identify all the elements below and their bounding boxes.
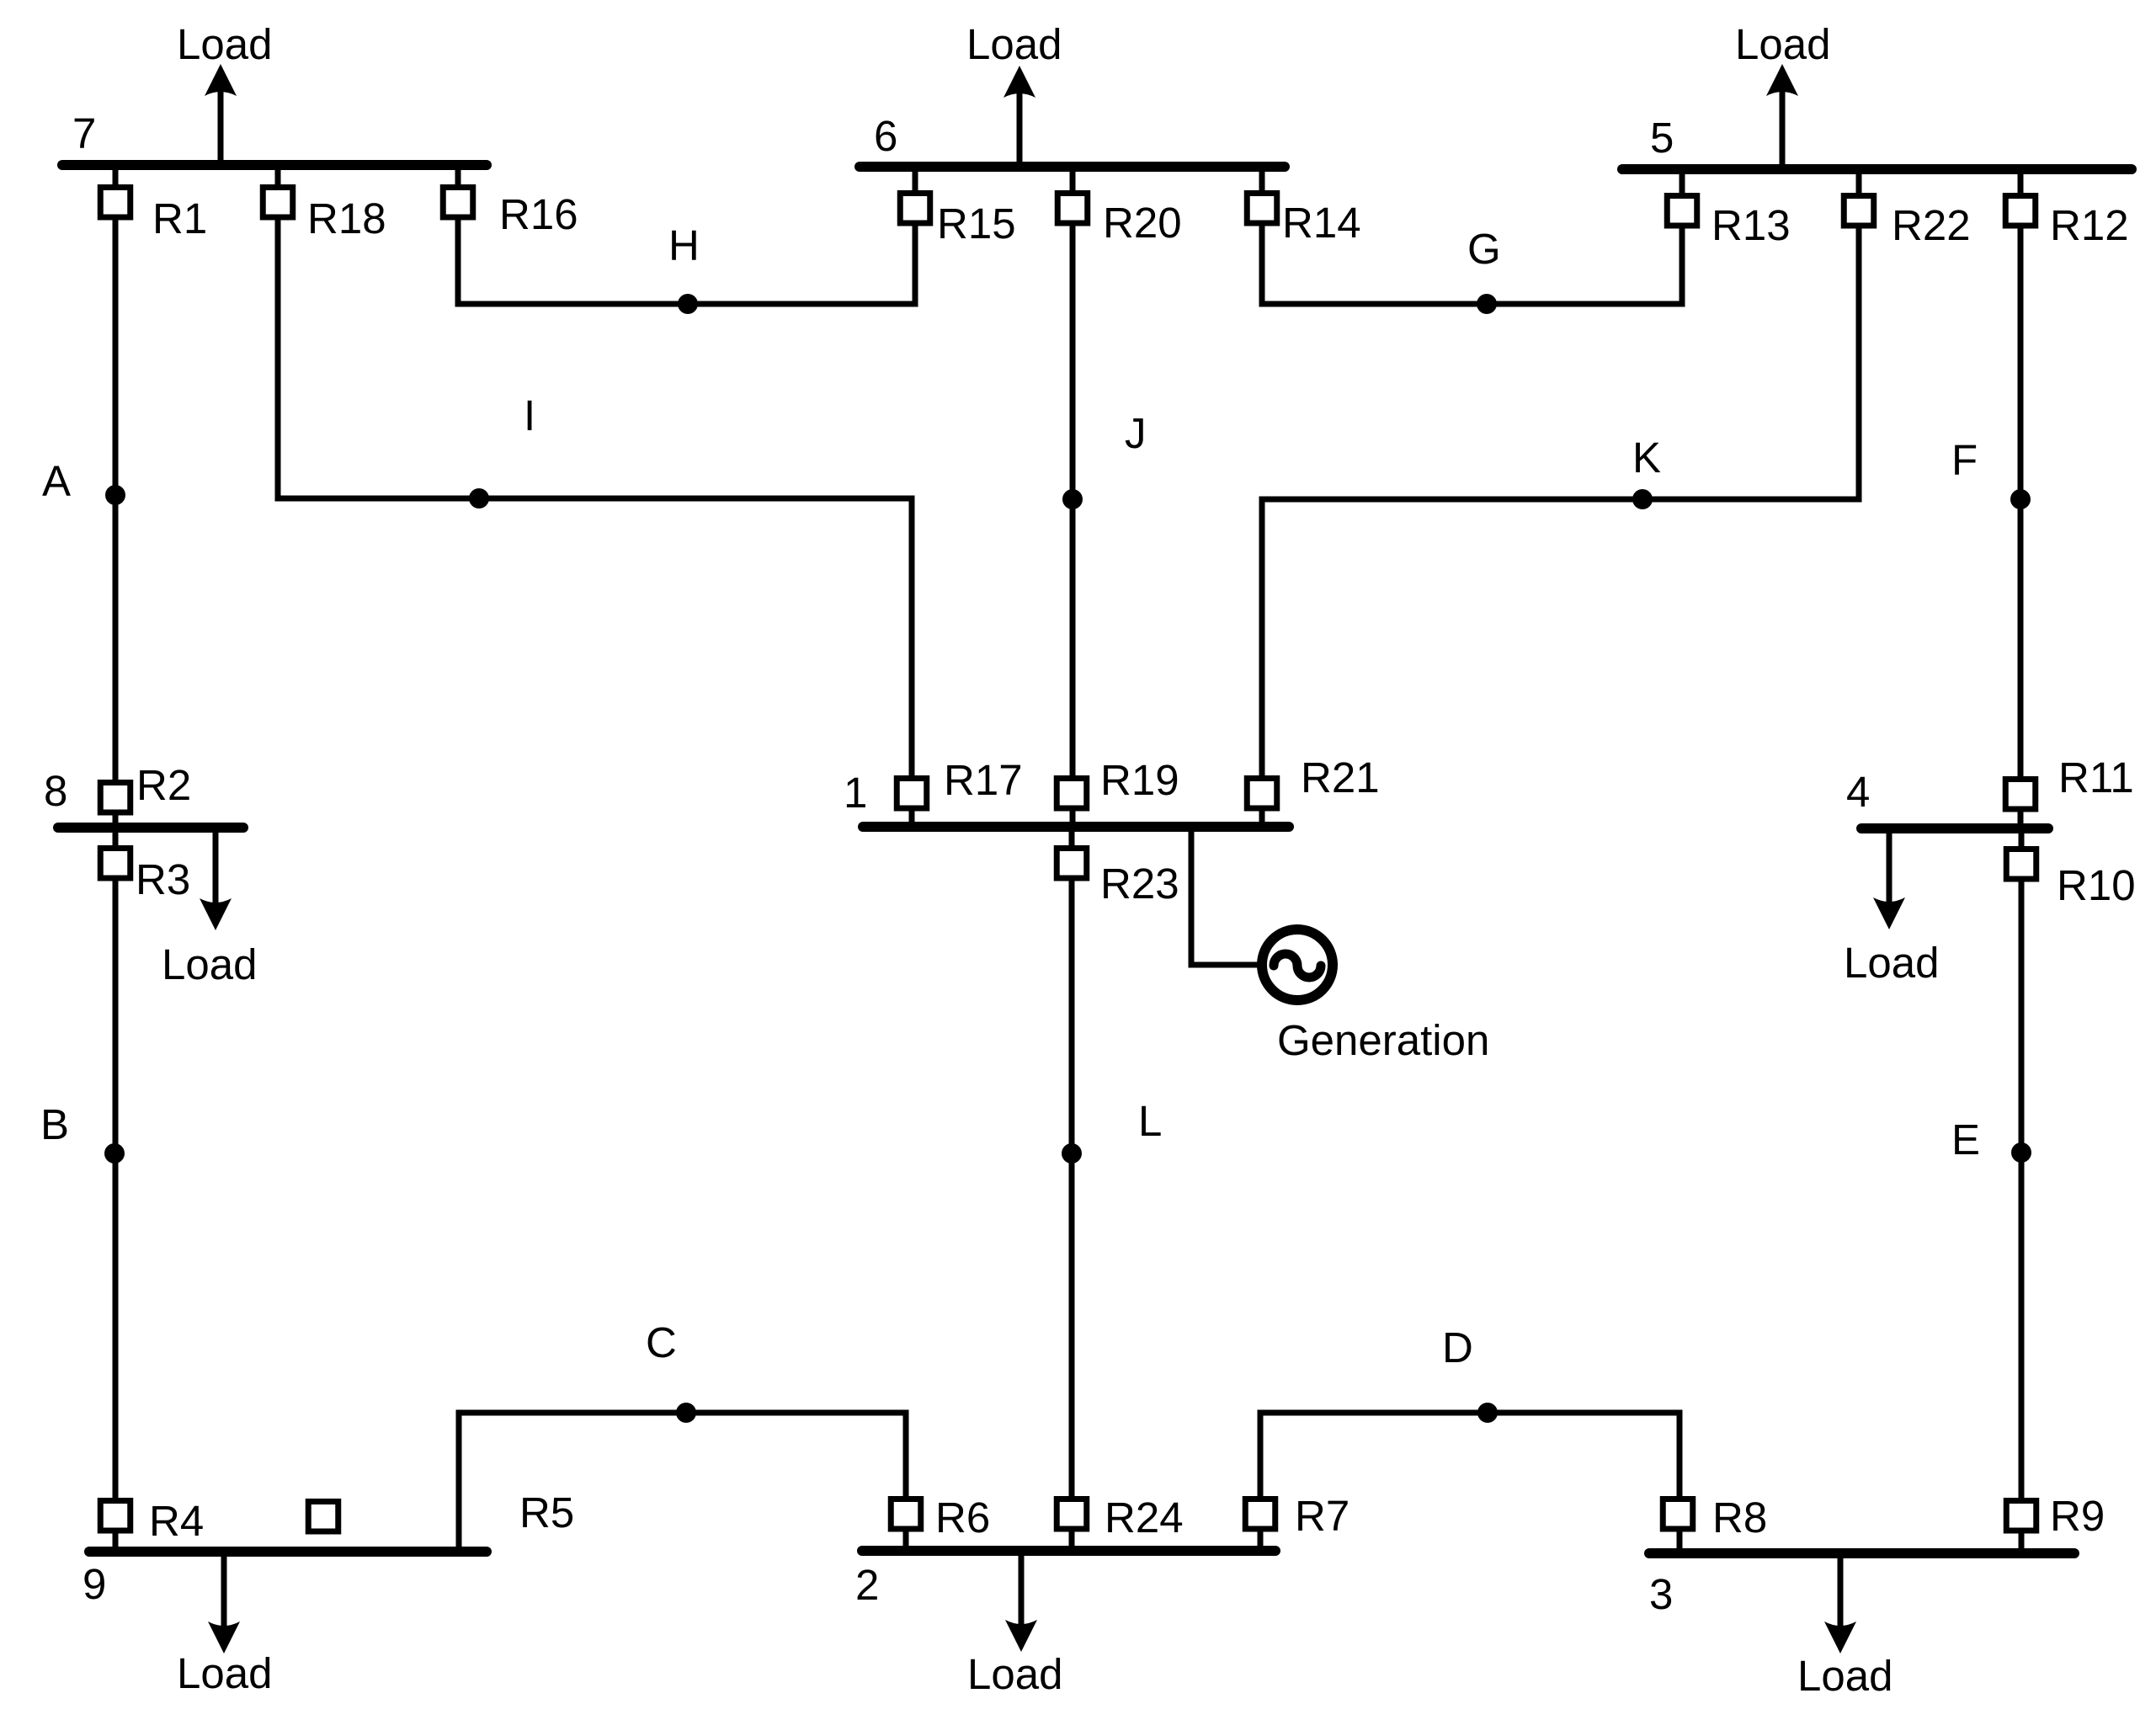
svg-text:6: 6	[874, 112, 897, 160]
svg-text:1: 1	[844, 769, 867, 817]
svg-text:5: 5	[1650, 114, 1674, 162]
svg-text:H: H	[668, 221, 700, 269]
relay R4	[100, 1501, 130, 1531]
bus 7	[62, 160, 487, 170]
relay R19	[1057, 779, 1087, 809]
svg-text:R6: R6	[935, 1494, 990, 1542]
svg-text:R23: R23	[1100, 860, 1179, 908]
svg-text:D: D	[1442, 1323, 1473, 1371]
load arrow bus 6	[1003, 66, 1035, 163]
svg-text:F: F	[1951, 436, 1978, 484]
svg-text:R10: R10	[2057, 861, 2136, 909]
wire line J (R20 to R19)	[1070, 166, 1076, 823]
relay R1	[100, 188, 130, 218]
load arrow bus 4	[1873, 832, 1905, 929]
node E	[2011, 1142, 2031, 1163]
generator G1	[1262, 929, 1333, 1000]
relay R3	[100, 849, 130, 879]
svg-text:4: 4	[1846, 768, 1870, 816]
bus 3	[1649, 1548, 2074, 1558]
node A	[105, 485, 125, 505]
svg-text:R8: R8	[1712, 1494, 1767, 1542]
svg-text:Load: Load	[966, 20, 1062, 68]
svg-text:I: I	[524, 391, 535, 439]
relay R20	[1057, 194, 1088, 224]
relay R2	[100, 783, 130, 813]
bus 4	[1861, 823, 2048, 833]
bus 9	[89, 1547, 487, 1557]
relay R13	[1667, 196, 1697, 226]
svg-text:R1: R1	[152, 194, 207, 242]
node I	[469, 488, 489, 509]
svg-text:R7: R7	[1295, 1492, 1349, 1540]
relay R9	[2006, 1501, 2036, 1531]
svg-text:Load: Load	[1844, 939, 1939, 987]
wire line A/B (R1-R2-R3-R4 vertical)	[113, 166, 119, 1547]
node K	[1632, 489, 1653, 509]
svg-text:R12: R12	[2050, 201, 2129, 249]
wire line K (R21 to R22)	[1262, 166, 1859, 827]
svg-text:R17: R17	[944, 756, 1023, 804]
svg-text:R16: R16	[499, 190, 578, 238]
svg-text:R24: R24	[1105, 1494, 1184, 1542]
relay R8	[1663, 1499, 1693, 1530]
bus 6	[860, 162, 1285, 172]
relay R17	[897, 779, 927, 809]
node C	[676, 1403, 696, 1423]
load arrow bus 7	[205, 64, 237, 162]
svg-text:R15: R15	[937, 200, 1016, 248]
wire generator tap	[1191, 827, 1259, 965]
relay R23	[1057, 849, 1087, 879]
node D	[1477, 1403, 1498, 1423]
wire line I (R18 to R17)	[278, 166, 912, 823]
relay R12	[2005, 196, 2036, 226]
wire line G (R14 to R13)	[1262, 166, 1682, 304]
relay R16	[443, 188, 473, 218]
svg-text:Load: Load	[177, 20, 272, 68]
svg-text:8: 8	[44, 767, 67, 815]
svg-text:R4: R4	[149, 1497, 204, 1545]
svg-text:R2: R2	[136, 761, 191, 809]
relay R15	[900, 194, 930, 224]
node H	[678, 294, 698, 314]
load arrow bus 9	[208, 1556, 240, 1653]
node B	[104, 1143, 125, 1164]
svg-text:G: G	[1467, 225, 1501, 273]
svg-text:R21: R21	[1301, 753, 1380, 801]
svg-text:A: A	[42, 457, 71, 505]
svg-text:R22: R22	[1892, 201, 1971, 249]
svg-text:Load: Load	[1797, 1652, 1892, 1700]
svg-text:Load: Load	[1735, 20, 1830, 68]
wire line E (R10 to R9)	[2019, 828, 2025, 1549]
svg-text:R20: R20	[1103, 199, 1182, 247]
node J	[1062, 489, 1083, 509]
relay R6	[891, 1499, 921, 1530]
svg-text:J: J	[1125, 409, 1147, 457]
relay R14	[1247, 194, 1277, 224]
wire line L (R23 to R24)	[1069, 827, 1075, 1547]
wire line H (R16 to R15)	[458, 166, 915, 304]
relay R10	[2006, 849, 2036, 880]
svg-text:9: 9	[83, 1560, 106, 1608]
relay R24	[1057, 1499, 1087, 1530]
svg-text:Load: Load	[967, 1650, 1062, 1698]
bus 8	[58, 823, 243, 833]
relay R7	[1245, 1499, 1275, 1530]
bus 2	[862, 1546, 1275, 1556]
node G	[1477, 294, 1497, 314]
svg-text:K: K	[1632, 434, 1661, 482]
load arrow bus 5	[1766, 64, 1798, 165]
bus 5	[1622, 164, 2132, 174]
relay R18	[263, 188, 293, 218]
node L	[1062, 1143, 1082, 1164]
svg-text:R13: R13	[1711, 201, 1791, 249]
svg-text:R14: R14	[1282, 199, 1361, 247]
relay R22	[1844, 196, 1874, 226]
wire line F (R12 to R11)	[2018, 166, 2024, 824]
svg-text:Load: Load	[162, 940, 257, 988]
svg-text:R11: R11	[2058, 753, 2134, 801]
svg-text:B: B	[40, 1100, 69, 1148]
load arrow bus 8	[200, 832, 232, 930]
relay R11	[2005, 780, 2036, 810]
svg-text:L: L	[1138, 1097, 1162, 1145]
wire line D (R7 to R8)	[1260, 1413, 1680, 1549]
svg-text:2: 2	[855, 1561, 879, 1609]
svg-text:7: 7	[72, 109, 96, 157]
node F	[2010, 489, 2031, 509]
svg-text:3: 3	[1649, 1570, 1673, 1618]
svg-text:R3: R3	[136, 855, 190, 903]
load arrow bus 3	[1824, 1558, 1856, 1653]
svg-text:R5: R5	[519, 1488, 574, 1536]
svg-text:R18: R18	[307, 194, 386, 242]
load arrow bus 2	[1005, 1555, 1037, 1652]
svg-text:R9: R9	[2050, 1492, 2105, 1540]
svg-text:R19: R19	[1100, 756, 1179, 804]
svg-text:C: C	[646, 1318, 677, 1366]
relay R21	[1247, 779, 1277, 809]
relay R5 box (detached)	[308, 1502, 338, 1532]
bus 1	[863, 822, 1289, 832]
svg-text:Generation: Generation	[1277, 1016, 1489, 1064]
svg-text:E: E	[1951, 1116, 1980, 1164]
svg-text:Load: Load	[177, 1649, 272, 1697]
wire line C (R5 to R6)	[459, 1413, 906, 1552]
